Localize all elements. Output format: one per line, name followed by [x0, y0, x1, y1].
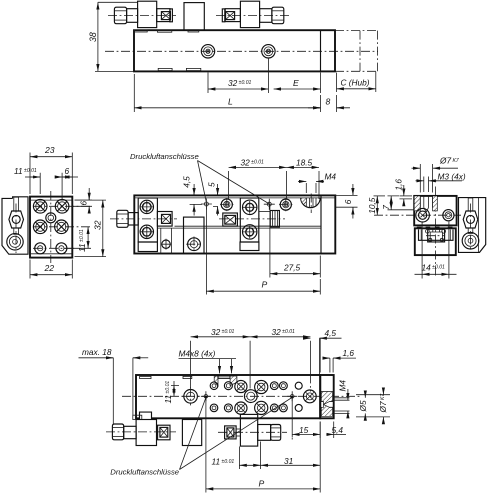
dim 5 arrows: [213, 184, 218, 216]
dim 11 arrows: [31, 176, 41, 178]
leader to port1: [198, 161, 207, 202]
svg-text:1,6: 1,6: [393, 179, 403, 191]
top screw right: [279, 198, 293, 212]
stud extension lines: [334, 398, 350, 414]
port 1 extension line: [205, 204, 207, 295]
M4 center tab: [218, 376, 230, 378]
throttle valve 2 adjuster square: [226, 12, 235, 20]
end cap hatch upper: [321, 392, 332, 405]
svg-text:18.5: 18.5: [296, 157, 313, 167]
attachment centerline: [15, 204, 17, 254]
M4 arrows: [298, 180, 306, 182]
svg-text:32 ±0.01: 32 ±0.01: [272, 327, 296, 337]
attachment centerline: [470, 204, 472, 252]
M4 pocket centerline: [310, 194, 312, 214]
dim 11 left extension: [171, 381, 179, 386]
end cap: [320, 375, 334, 418]
slot pocket: [419, 230, 454, 241]
svg-text:11 ±0.01: 11 ±0.01: [77, 229, 87, 252]
vertical centerline: [434, 187, 436, 277]
dim 32 extension lines: [208, 58, 268, 94]
svg-text:C (Hub): C (Hub): [341, 77, 370, 87]
dim P extension: [319, 279, 321, 295]
body outline: [134, 195, 335, 253]
dim 23 extensions: [30, 153, 72, 195]
svg-text:31: 31: [284, 456, 293, 466]
rail profile inner: [430, 229, 442, 242]
svg-text:8: 8: [326, 96, 331, 106]
fitting2 centerline: [219, 218, 285, 220]
dim 27.5 extension: [319, 256, 321, 278]
body outline: [136, 375, 320, 418]
fitting1 shaft: [128, 213, 138, 225]
right dim 6 extensions: [336, 195, 358, 207]
side bracket outline: [2, 197, 28, 254]
hole r3c2: [56, 243, 67, 254]
svg-text:Ø5: Ø5: [358, 400, 368, 412]
dim 4,5 arrows: [303, 338, 341, 374]
port1 extension line: [205, 396, 207, 492]
dim Ø5 arrows: [364, 391, 366, 420]
attachment hex stem: [468, 198, 473, 211]
centerline main axis: [105, 50, 378, 52]
screws row centerline: [374, 214, 461, 216]
dim 18.5: [287, 166, 320, 168]
bottom fitting 2 adjuster square: [227, 428, 234, 437]
throttle valve 2 block: [240, 1, 259, 27]
side attachment outline: [459, 198, 486, 253]
vertical centerline: [50, 191, 52, 263]
dim 38: [97, 2, 99, 71]
dim 10,5 line: [376, 196, 378, 215]
M3 arrows: [416, 180, 424, 182]
dim 4,5 arrows: [190, 184, 202, 216]
center pedestal: [184, 217, 205, 253]
end cap line: [320, 195, 322, 253]
dim 27.5: [270, 273, 320, 275]
svg-text:M3 (4x): M3 (4x): [438, 171, 466, 181]
pedestal top tab: [183, 376, 192, 378]
main centerline: [122, 395, 360, 397]
dim 32: [208, 88, 268, 90]
fitting2 shaft: [259, 212, 270, 227]
svg-text:1,6: 1,6: [343, 348, 355, 358]
bottom-left edge tab: [140, 412, 152, 419]
top chamfer line: [30, 199, 72, 201]
screw u3: [235, 380, 247, 392]
screw hole r1c2: [55, 200, 69, 214]
bottom fitting 1 adjuster housing: [158, 425, 170, 440]
dim 6 top arrows: [62, 176, 68, 178]
right dim 6 arrows: [88, 193, 90, 200]
dim 32 first extensions: [191, 341, 251, 389]
valve bracket 1 lip: [138, 242, 157, 252]
rail profile outer: [428, 229, 445, 242]
small screw below adjuster: [161, 228, 172, 253]
hole u6: [280, 382, 288, 390]
rail corner hole tr: [442, 229, 446, 233]
bottom edge tab 1: [158, 68, 172, 70]
svg-text:max. 18: max. 18: [82, 347, 112, 357]
dim 32 first: [191, 336, 251, 338]
rail corner hole bl: [429, 238, 432, 241]
fitting2 adjuster housing: [223, 213, 238, 226]
bracket1 screw top: [140, 200, 154, 213]
hole l6: [280, 404, 288, 412]
dim 14 extensions: [422, 222, 449, 279]
center block: [184, 3, 204, 31]
bracket2 screw bottom: [243, 225, 257, 239]
center hole big: [244, 390, 257, 403]
valve bracket 1: [138, 198, 157, 242]
throttle valve 1 hex nut: [114, 7, 126, 24]
dim 7 line: [390, 196, 392, 210]
throttle valve 2 shaft: [260, 9, 272, 23]
max18 extensions: [113, 358, 133, 425]
pedestal screw: [186, 237, 202, 253]
right dim 6 arrows: [352, 184, 354, 219]
hole u2: [224, 382, 232, 390]
side shaft: [14, 228, 19, 234]
top edge tab 2: [157, 30, 171, 32]
end cap hatch lower: [321, 405, 332, 417]
section screw left: [416, 208, 430, 222]
bottom fitting 1 centerline: [106, 431, 176, 433]
bottom leader to port2: [180, 398, 293, 470]
top screw left of bracket2: [220, 198, 234, 212]
svg-text:P: P: [262, 280, 268, 290]
dim 11 left: [173, 385, 175, 396]
row centerline 2: [33, 226, 91, 228]
bottom fitting 1 tab: [133, 415, 142, 419]
side lower screw: [7, 234, 23, 250]
dim 14 tails: [415, 273, 457, 275]
upper block outline: [414, 196, 456, 226]
fitting1 hex: [117, 210, 128, 227]
dim 15 extension: [292, 422, 320, 440]
hole l7: [295, 404, 302, 411]
svg-text:23: 23: [44, 145, 55, 155]
top surface line: [134, 197, 335, 199]
dim 7 extensions: [388, 196, 415, 210]
attachment screw: [462, 232, 479, 249]
dim 8 extension: [336, 95, 338, 112]
svg-text:32 ±0.01: 32 ±0.01: [228, 78, 252, 88]
throttle valve 1 end plate: [170, 9, 173, 22]
M4 extensions: [306, 183, 316, 193]
rail corner hole br: [440, 238, 443, 241]
M4x8 leaders: [179, 359, 237, 374]
center hole: [46, 213, 56, 223]
side attachment inner line: [477, 198, 479, 253]
hole r3c1: [35, 243, 46, 254]
svg-text:5: 5: [206, 182, 216, 187]
dim 32 extensions: [229, 171, 287, 199]
svg-text:4,5: 4,5: [325, 328, 337, 338]
dim 38 extension top: [98, 1, 137, 3]
svg-text:15: 15: [299, 425, 309, 435]
body outline: [134, 30, 335, 71]
block seam: [417, 227, 453, 229]
hole u1: [210, 382, 218, 390]
svg-text:M4: M4: [325, 172, 337, 182]
phantom extended position: [335, 31, 378, 72]
right dim 11: [87, 227, 89, 249]
dim 8 tails: [308, 107, 350, 109]
end cap line: [320, 30, 322, 71]
center block bottom tab: [188, 30, 199, 32]
fitting2 adjuster square: [225, 215, 236, 224]
throttle valve 2 centerline: [216, 15, 290, 17]
dim 4,5 extension: [319, 338, 321, 372]
svg-text:6: 6: [343, 199, 353, 204]
throttle valve 1 sleeve: [157, 9, 170, 22]
bottom fitting 2 adjuster housing: [225, 426, 237, 439]
fitting2 knurled nut: [270, 211, 279, 228]
attachment hex nut: [463, 211, 478, 228]
attachment shaft: [468, 228, 473, 233]
svg-text:14 ±0.01: 14 ±0.01: [422, 262, 446, 272]
Ø7 end extensions: [356, 395, 390, 417]
dim 32 extensions: [75, 200, 107, 257]
dim 1,6 arrows: [400, 185, 413, 206]
screw hole 1: [201, 45, 214, 58]
Ø7 arrows: [412, 167, 421, 169]
dim 15: [292, 433, 320, 435]
valve bracket 2: [240, 198, 258, 242]
dim 32 second extension: [309, 341, 311, 375]
Ø7 extensions: [420, 164, 432, 193]
port 1 plan: [201, 391, 211, 401]
svg-text:Ø7 K7: Ø7 K7: [378, 394, 388, 414]
dim Ø7 arrows: [382, 388, 384, 424]
lower block outline: [415, 228, 456, 255]
dim 32: [102, 200, 104, 257]
dim P bottom: [206, 488, 320, 490]
bottom chamfer line: [30, 253, 72, 255]
hole l5: [270, 404, 278, 412]
bottom edge tab 2: [186, 68, 200, 70]
top edge tab left: [135, 30, 148, 32]
svg-text:11 ±0.01: 11 ±0.01: [163, 381, 173, 404]
dim C(Hub): [337, 88, 376, 90]
side bracket inner line: [27, 197, 29, 254]
leader to port2: [198, 161, 269, 204]
top-left edge tab: [140, 376, 151, 378]
svg-text:22: 22: [44, 263, 55, 273]
svg-text:32: 32: [93, 220, 103, 230]
M4 thread pocket right: [230, 376, 237, 386]
dim 11 tail: [25, 176, 40, 178]
svg-text:4,5: 4,5: [182, 176, 192, 188]
M3 leader underline: [436, 180, 463, 182]
bottom fitting 2 neck: [236, 429, 240, 436]
svg-text:11 ±0.01: 11 ±0.01: [14, 166, 37, 176]
side hex stem: [14, 197, 19, 211]
side hex nut: [9, 211, 24, 228]
dim 5,4 extension: [333, 422, 335, 439]
hatch right patch: [433, 196, 438, 211]
dim 38 extension bottom: [95, 70, 134, 72]
dim P: [206, 290, 320, 292]
dim 22 extensions: [30, 260, 72, 279]
throttle valve 2 sleeve: [225, 9, 240, 22]
svg-text:Druckluftanschlüsse: Druckluftanschlüsse: [130, 152, 199, 161]
dim 18.5 extension: [318, 171, 320, 199]
hole Ø7 left: [182, 387, 200, 405]
bore drill point: [420, 196, 432, 212]
fitting1 adjuster housing: [157, 212, 172, 227]
svg-text:P: P: [259, 478, 265, 488]
svg-text:L: L: [228, 96, 233, 106]
bottom fitting 1 shaft: [124, 426, 136, 438]
port 2 plan: [287, 391, 297, 401]
screw u4: [255, 380, 268, 393]
dim 11 bottom extensions: [239, 442, 260, 470]
screw l3: [235, 402, 247, 414]
hole u5: [270, 382, 278, 390]
screw hole r2c2: [55, 220, 69, 234]
end bore lines: [329, 402, 333, 408]
dim C(Hub) extension: [337, 72, 376, 92]
hatch left patch: [414, 196, 420, 211]
bracket1 screw bottom: [140, 225, 154, 238]
bottom fitting 2 hex: [271, 425, 281, 441]
dim 14: [422, 273, 449, 275]
bottom leader to port1: [180, 398, 206, 470]
dim 1,6 top extension: [400, 195, 413, 197]
screw hole r2c1: [33, 220, 47, 234]
row centerline 1: [33, 205, 91, 207]
Ø7 leader underline: [438, 167, 459, 169]
M4 pocket bowl: [301, 198, 321, 208]
dim 32 second: [250, 336, 310, 338]
bottom fitting 1 block: [136, 420, 156, 446]
port 1: [201, 199, 212, 210]
dim E: [274, 88, 321, 90]
throttle valve 1 adjuster square: [161, 12, 170, 20]
row centerline 3: [33, 247, 76, 249]
fitting1 adjuster square: [162, 214, 171, 223]
M4 thread pocket left: [214, 376, 218, 386]
svg-text:6: 6: [79, 201, 89, 206]
throttle valve 1 shaft: [127, 9, 138, 23]
bottom fitting 2 shaft: [258, 425, 271, 441]
fitting1 centerline: [110, 218, 177, 220]
pedestal foot: [182, 420, 201, 446]
port2 extension: [291, 396, 293, 437]
dim 31 extension: [319, 422, 321, 493]
dim M4 arrows: [347, 389, 349, 418]
right dim 6 extensions: [72, 200, 92, 206]
port 2: [264, 199, 275, 210]
dim 8 arrows: [313, 107, 321, 109]
dim 1,6 arrows: [323, 357, 357, 359]
svg-text:38: 38: [88, 32, 98, 42]
svg-text:7: 7: [381, 205, 391, 210]
svg-text:M4x8 (4x): M4x8 (4x): [179, 349, 216, 359]
dim L extension: [134, 74, 320, 112]
dim E extension: [320, 73, 322, 94]
svg-text:32 ±0.01: 32 ±0.01: [241, 157, 265, 167]
bottom fitting 1 hex: [112, 424, 123, 440]
dim L: [134, 107, 320, 109]
body outline: [30, 197, 72, 258]
dim 10,5 extensions: [374, 195, 386, 197]
dim 6 top tail: [62, 176, 78, 178]
svg-text:27,5: 27,5: [283, 262, 301, 272]
bracket2 screw top: [243, 200, 257, 214]
svg-text:E: E: [293, 78, 299, 88]
bore slot thread lines: [424, 196, 429, 208]
screw hole 2: [262, 45, 275, 58]
right dim 6 line: [88, 188, 90, 200]
svg-text:Druckluftanschlüsse: Druckluftanschlüsse: [110, 468, 179, 477]
port 2 extension line: [269, 204, 271, 277]
M3 extensions: [424, 177, 429, 193]
hole l2: [224, 404, 232, 412]
screw l4: [255, 401, 268, 414]
rail corner hole tl: [426, 229, 430, 233]
valve bracket 2 lip: [240, 242, 259, 251]
dim 32: [229, 166, 287, 168]
bottom fitting 2 centerline: [218, 431, 287, 433]
svg-text:32 ±0.01: 32 ±0.01: [211, 327, 235, 337]
svg-text:Ø7 K7: Ø7 K7: [439, 156, 459, 166]
dim 22: [30, 274, 72, 276]
bottom fitting 1 adjuster square: [160, 427, 168, 437]
svg-text:6: 6: [65, 166, 70, 176]
hole u7: [295, 382, 302, 389]
dim 11 bottom: [239, 464, 260, 466]
svg-text:5,4: 5,4: [332, 425, 344, 435]
dim max.18 arrows: [79, 357, 149, 359]
throttle valve 2 end plate: [222, 9, 225, 22]
dim 31: [261, 464, 321, 466]
leader dots: [205, 396, 207, 398]
screw right end: [303, 390, 316, 403]
throttle valve 1 centerline: [108, 15, 176, 17]
svg-text:11 ±0.01: 11 ±0.01: [212, 457, 235, 467]
table lower edge lines: [158, 226, 322, 228]
right dim 11 extension: [64, 247, 91, 249]
section screw right: [443, 210, 454, 221]
dim 1,6 extensions: [330, 358, 333, 372]
rail centerline: [426, 235, 445, 237]
bottom fitting 2 block: [240, 414, 257, 446]
screw hole r1c1: [33, 200, 47, 214]
dim 11 extensions: [40, 173, 62, 199]
svg-text:10,5: 10,5: [367, 197, 377, 214]
hole l1: [210, 404, 218, 412]
throttle valve 2 hex nut: [272, 7, 284, 24]
dim 23: [30, 156, 72, 158]
throttle valve 1 block: [138, 1, 157, 27]
svg-text:M4: M4: [338, 380, 348, 392]
dim 5,4 arrows: [326, 433, 346, 435]
